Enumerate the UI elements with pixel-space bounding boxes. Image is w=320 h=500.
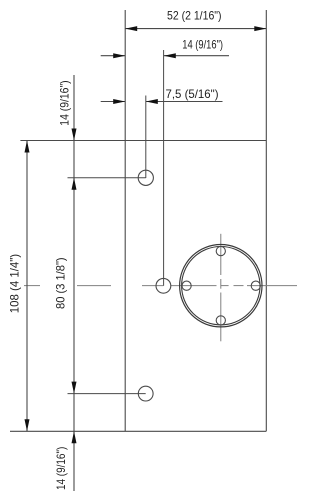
svg-text:14 (9/16"): 14 (9/16") [57,80,71,125]
svg-text:7,5 (5/16"): 7,5 (5/16") [166,87,219,101]
extension line top hole left [68,177,146,179]
svg-text:14 (9/16"): 14 (9/16") [182,38,223,52]
dimension 7,5 arrow left [113,99,125,104]
dimension 14 top leader right [164,55,229,57]
centerline horizontal [24,285,297,287]
svg-text:108 (4 1/4"): 108 (4 1/4") [7,254,21,313]
extension line bottom hole left [68,393,146,395]
dimension 7,5 leader left [101,101,126,103]
big circle inner [182,247,260,325]
bolt hole top [216,247,225,256]
svg-text:52 (2 1/16"): 52 (2 1/16") [167,8,222,22]
dimension 14/80 left line [73,75,75,491]
dimension 14 left arrow down [72,129,77,141]
dimension 14 top arrow right [164,53,176,58]
dimension 14 top leader left [101,55,126,57]
dimension 52 arrow right [254,26,266,31]
dimension 14 bottom arrow up [72,431,77,443]
dimension 7,5 leader right [146,101,223,103]
plate left edge [124,10,126,431]
dimension 108 arrow top [25,141,30,153]
dimension 80 arrow down [72,382,77,394]
dimension 14 top arrow left [113,53,125,58]
extension line for 14 top [163,50,165,286]
big circle outer [180,245,262,327]
dimension 108 line [26,141,28,432]
plate bottom edge [10,430,266,432]
svg-text:80 (3 1/8"): 80 (3 1/8") [54,257,68,309]
dimension 52 arrow left [125,26,137,31]
dimension 108 arrow bottom [25,419,30,431]
hole top [138,170,153,185]
centerline vertical [220,234,222,341]
dimension 80 arrow up [72,178,77,190]
svg-text:14 (9/16"): 14 (9/16") [54,447,68,490]
plate right edge [265,10,267,431]
hole middle spindle [156,278,171,293]
dimension 7,5 arrow right [146,99,158,104]
bolt hole right [251,281,260,290]
bolt hole bottom [216,316,225,325]
plate top edge [20,140,266,142]
dimension 52 line [125,28,266,30]
bolt hole left [182,281,191,290]
hole bottom [138,386,153,401]
extension line for 7,5 [145,96,147,179]
